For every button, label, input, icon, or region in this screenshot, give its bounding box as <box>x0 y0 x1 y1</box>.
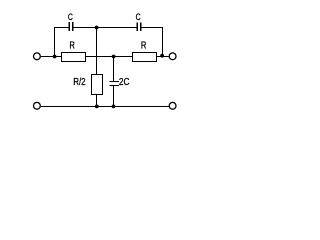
svg-text:2C: 2C <box>119 77 130 88</box>
bottom rail junction dot (R/2) <box>95 105 99 109</box>
twin-T notch filter schematic <box>0 0 193 119</box>
svg-text:C: C <box>136 12 141 22</box>
resistor R (left series arm) <box>62 53 86 62</box>
svg-text:R: R <box>69 40 75 51</box>
capacitor 2C plates <box>110 81 119 85</box>
output terminal top-right <box>169 53 176 60</box>
svg-text:R: R <box>141 40 147 51</box>
wire 2C branch upper (middle row junction to 2C top plate) <box>113 57 115 81</box>
node B junction dot <box>160 54 164 58</box>
input terminal bottom-left <box>34 102 41 109</box>
middle row junction dot <box>112 55 116 59</box>
capacitor C (right) plates <box>137 22 140 31</box>
output terminal bottom-right <box>169 102 176 109</box>
input terminal top-left <box>34 53 41 60</box>
wire bottom rail <box>41 106 169 108</box>
wire top rail left segment (corner to C1 left plate) <box>54 27 69 29</box>
wire top rail right segment (C2 to corner) <box>142 27 164 29</box>
top rail junction dot <box>95 26 99 30</box>
wire R/2 branch upper (top rail junction down to R/2 box) <box>96 28 98 75</box>
bottom rail junction dot (2C) <box>112 105 116 109</box>
wire 2C branch lower (2C bottom plate to bottom rail) <box>113 86 115 107</box>
wire output drop (top rail corner down to node B) <box>162 28 164 57</box>
resistor R/2 (shunt) <box>92 75 103 95</box>
wire middle row <box>41 56 169 58</box>
svg-text:C: C <box>68 12 73 22</box>
node A junction dot <box>53 55 57 59</box>
resistor R (right series arm) <box>133 53 157 62</box>
svg-text:R/2: R/2 <box>73 77 85 88</box>
wire R/2 branch lower (R/2 box to bottom rail) <box>96 95 98 107</box>
wire input riser (node A up to top rail) <box>54 27 56 57</box>
wire top rail middle segment (C1 to C2) <box>74 27 137 29</box>
capacitor C (left) plates <box>69 22 73 31</box>
